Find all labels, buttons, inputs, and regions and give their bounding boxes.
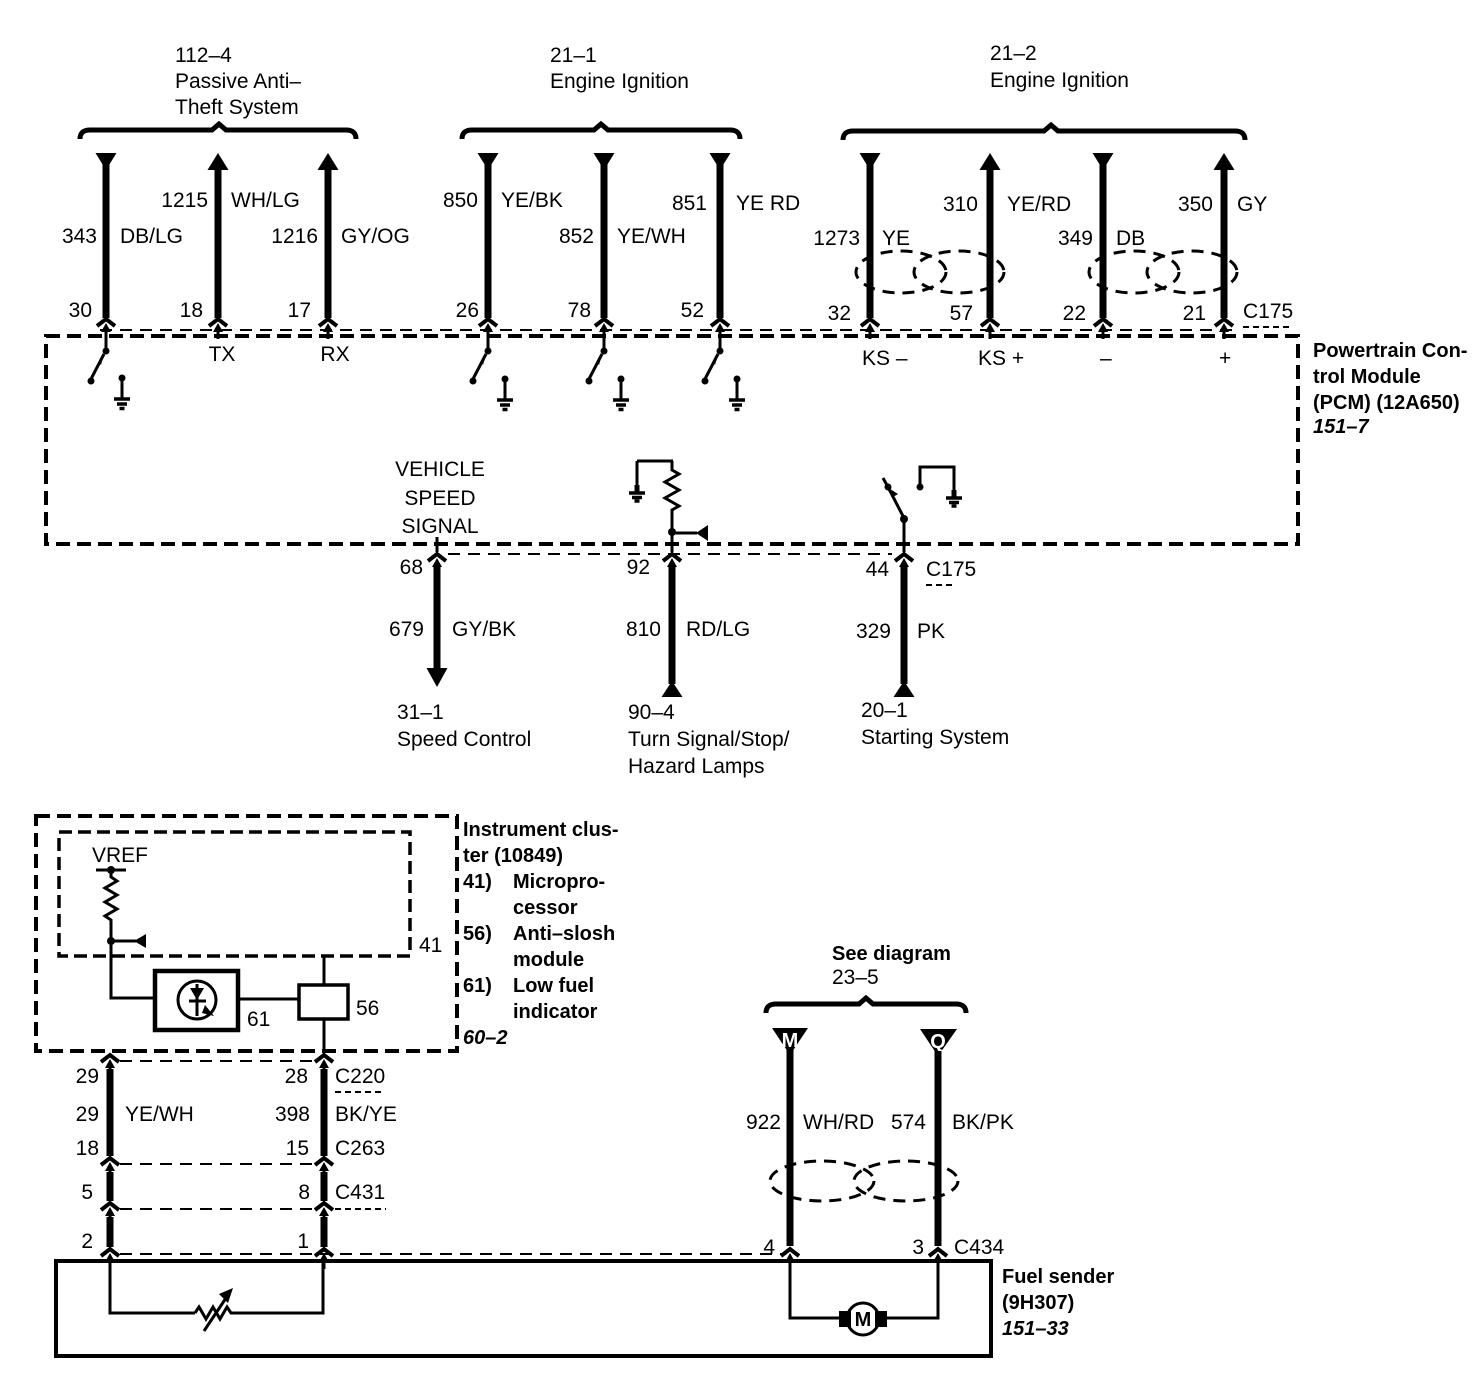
- svg-text:28: 28: [285, 1065, 308, 1088]
- wire 851 YE RD pin 52: [672, 153, 800, 322]
- wire 350 GY pin 21: [1178, 153, 1267, 325]
- connector pin 52: [711, 319, 729, 339]
- svg-text:M: M: [782, 1030, 799, 1052]
- svg-text:module: module: [513, 949, 584, 971]
- svg-text:1: 1: [297, 1230, 309, 1253]
- svg-text:trol Module: trol Module: [1313, 366, 1421, 388]
- svg-text:60–2: 60–2: [463, 1027, 508, 1049]
- wire 92 stub: [671, 532, 674, 552]
- wire 41 to 56: [323, 956, 326, 985]
- node 31-1 Speed Control label: [397, 701, 531, 751]
- ground under pin 78 switch: [613, 376, 629, 410]
- node 90-4 Turn Signal/Stop/Hazard Lamps label: [628, 701, 790, 778]
- svg-text:349: 349: [1058, 227, 1093, 250]
- svg-text:61): 61): [463, 975, 492, 997]
- svg-text:C434: C434: [954, 1236, 1005, 1259]
- svg-text:C175: C175: [926, 558, 976, 581]
- svg-text:30: 30: [69, 299, 92, 322]
- svg-text:Anti–slosh: Anti–slosh: [513, 923, 615, 945]
- wire fuel sender left loop: [110, 1261, 195, 1313]
- svg-text:M: M: [855, 1309, 872, 1331]
- switch under pin 30: [88, 338, 110, 385]
- node Powertrain Control Module label: [1313, 340, 1467, 438]
- wire 1215 WH/LG pin 18: [161, 153, 300, 322]
- switch under pin 52: [702, 338, 724, 385]
- wire connector line thin dashed below PCM: [448, 553, 892, 555]
- connector pin 68: [428, 554, 446, 574]
- node 20-1 Starting System label: [861, 699, 1009, 749]
- node indicator lamp circle: [178, 981, 216, 1019]
- svg-text:Micropro-: Micropro-: [513, 871, 605, 893]
- svg-text:TX: TX: [209, 343, 236, 366]
- svg-text:78: 78: [568, 299, 591, 322]
- connector pin 2 C434: [101, 1249, 119, 1269]
- svg-text:398: 398: [275, 1103, 310, 1126]
- connector pin 28 C220: [315, 1055, 333, 1075]
- motor M fuel pump: [839, 1303, 887, 1335]
- connector pin 8 C431: [315, 1203, 333, 1223]
- svg-text:21: 21: [1183, 302, 1206, 325]
- svg-text:Passive Anti–: Passive Anti–: [175, 70, 301, 93]
- node C263 label row: [76, 1137, 386, 1160]
- svg-text:(9H307): (9H307): [1002, 1292, 1074, 1314]
- svg-text:Instrument clus-: Instrument clus-: [463, 819, 619, 841]
- connector pin 15 C263: [315, 1158, 333, 1178]
- twisted pair 922/574: [770, 1161, 958, 1201]
- svg-text:indicator: indicator: [513, 1001, 598, 1023]
- ground under pin 30 switch: [114, 375, 130, 409]
- svg-text:C175: C175: [1243, 300, 1293, 323]
- wire segment pin 8: [321, 1172, 328, 1201]
- node 112-4 Passive Anti-Theft System title: [175, 44, 301, 119]
- node VEHICLE SPEED SIGNAL label: [395, 458, 485, 538]
- node See diagram 23-5 title: [832, 943, 951, 989]
- wire variable resistor arrow: [204, 1288, 233, 1331]
- svg-text:852: 852: [559, 225, 594, 248]
- svg-text:VREF: VREF: [92, 844, 148, 867]
- svg-text:C263: C263: [335, 1137, 385, 1160]
- svg-text:26: 26: [456, 299, 479, 322]
- wire segment pin 1: [321, 1217, 328, 1247]
- svg-text:112–4: 112–4: [175, 44, 232, 67]
- wire 56 to pin 28: [323, 1019, 326, 1053]
- wire 1216 GY/OG pin 17: [271, 153, 410, 322]
- svg-text:BK/YE: BK/YE: [335, 1103, 397, 1126]
- connector pin 18: [209, 319, 227, 339]
- wire fuel pump feed: [790, 1261, 839, 1318]
- svg-text:56): 56): [463, 923, 492, 945]
- node LED diode symbol: [189, 984, 214, 1016]
- node Fuel sender box: [56, 1261, 991, 1356]
- svg-text:57: 57: [950, 302, 973, 325]
- wire 398 BK/YE upper segment: [321, 1069, 328, 1156]
- svg-text:90–4: 90–4: [628, 701, 675, 724]
- connector pin 26: [479, 319, 497, 339]
- svg-text:1216: 1216: [271, 225, 318, 248]
- svg-text:GY/OG: GY/OG: [341, 225, 410, 248]
- svg-text:RX: RX: [320, 343, 349, 366]
- node pins 2 and 1 labels: [81, 1230, 309, 1253]
- switch at pin 44: [883, 478, 908, 552]
- node C175 label top: [1243, 300, 1293, 327]
- node VREF terminal: [96, 866, 126, 874]
- wire connector line C434 thin dashed: [120, 1253, 783, 1255]
- twisted pair 1273/310: [856, 251, 1004, 293]
- connector pin 29 C220: [101, 1055, 119, 1075]
- svg-text:8: 8: [298, 1181, 310, 1204]
- svg-text:23–5: 23–5: [832, 966, 879, 989]
- svg-text:574: 574: [891, 1111, 926, 1134]
- svg-text:Fuel sender: Fuel sender: [1002, 1266, 1114, 1288]
- node anti-slosh module 56 box: [299, 985, 348, 1019]
- svg-text:C431: C431: [335, 1181, 385, 1204]
- connector pin 5 C431: [101, 1203, 119, 1223]
- svg-text:PK: PK: [917, 620, 945, 643]
- svg-text:Engine Ignition: Engine Ignition: [550, 70, 689, 93]
- svg-text:41: 41: [419, 934, 442, 957]
- wire 329 PK pin 44: [856, 566, 945, 697]
- svg-text:3: 3: [912, 1236, 924, 1259]
- node 21-1 Engine Ignition title: [550, 44, 689, 93]
- svg-text:151–7: 151–7: [1313, 416, 1369, 438]
- wire 61 to 56: [238, 998, 299, 1001]
- bracket 21-2 group: [843, 125, 1245, 140]
- svg-text:Theft System: Theft System: [175, 96, 299, 119]
- connector pin 57: [981, 319, 999, 339]
- node junction dot VREF divider: [107, 937, 115, 945]
- svg-text:GY: GY: [1237, 193, 1267, 216]
- svg-text:VEHICLE: VEHICLE: [395, 458, 485, 481]
- ground under pin 26 switch: [497, 376, 513, 410]
- resistor R vss filter: [637, 461, 679, 532]
- connector pin 92: [663, 554, 681, 574]
- node microprocessor 41 inner box (dashed): [59, 832, 410, 956]
- svg-text:810: 810: [626, 618, 661, 641]
- node M terminal triangle: [772, 1028, 808, 1055]
- svg-text:DB/LG: DB/LG: [120, 225, 183, 248]
- svg-text:See diagram: See diagram: [832, 943, 951, 965]
- connector pin 78: [595, 319, 613, 339]
- wire bracket to ground near pin 44: [917, 467, 955, 492]
- op-amp PCM module box (dashed): [46, 336, 1298, 544]
- svg-text:329: 329: [856, 620, 891, 643]
- svg-text:+: +: [1219, 347, 1231, 370]
- resistor VREF pull-up: [105, 870, 117, 941]
- node C431 label row: [81, 1181, 386, 1209]
- wire 679 GY/BK pin 68: [389, 556, 516, 687]
- svg-text:21–2: 21–2: [990, 42, 1037, 65]
- bracket 112-4 group: [80, 124, 356, 139]
- svg-text:SIGNAL: SIGNAL: [401, 515, 478, 538]
- connector pin 32: [861, 319, 879, 339]
- wire 29 YE/WH upper segment: [107, 1069, 114, 1156]
- svg-text:KS +: KS +: [978, 347, 1024, 370]
- svg-text:–: –: [1100, 347, 1112, 370]
- svg-text:18: 18: [180, 299, 203, 322]
- bracket 21-1 group: [462, 124, 740, 139]
- switch under pin 78: [586, 338, 608, 385]
- svg-text:52: 52: [681, 299, 704, 322]
- svg-text:20–1: 20–1: [861, 699, 908, 722]
- svg-text:1273: 1273: [813, 227, 860, 250]
- svg-text:350: 350: [1178, 193, 1213, 216]
- horn (speed signal output) symbol: [674, 525, 708, 541]
- resistor fuel sender variable: [195, 1307, 234, 1319]
- svg-text:Speed Control: Speed Control: [397, 728, 531, 751]
- svg-text:68: 68: [400, 556, 423, 579]
- svg-text:61: 61: [247, 1008, 270, 1031]
- svg-text:18: 18: [76, 1137, 99, 1160]
- node junction dot 92: [668, 528, 676, 536]
- svg-text:44: 44: [866, 558, 890, 581]
- node Instrument cluster box (dashed): [36, 816, 457, 1051]
- node Instrument cluster legend: [463, 819, 619, 1049]
- wire connector line C431 thin dashed: [120, 1208, 314, 1210]
- svg-text:679: 679: [389, 618, 424, 641]
- node C175 label at pin 44: [866, 558, 977, 585]
- wire 574 BK/PK pin 3: [891, 1051, 1014, 1246]
- node pins 4 3 C434 labels: [763, 1236, 1004, 1259]
- node C220 label row: [76, 1065, 386, 1092]
- svg-text:310: 310: [943, 193, 978, 216]
- svg-text:22: 22: [1063, 302, 1086, 325]
- svg-text:ter (10849): ter (10849): [463, 845, 563, 867]
- svg-text:Powertrain Con-: Powertrain Con-: [1313, 340, 1467, 362]
- svg-text:KS –: KS –: [862, 347, 908, 370]
- svg-text:BK/PK: BK/PK: [952, 1111, 1014, 1134]
- svg-text:YE/RD: YE/RD: [1007, 193, 1071, 216]
- svg-text:4: 4: [763, 1236, 775, 1259]
- wire segment pin 5: [107, 1172, 114, 1201]
- svg-text:850: 850: [443, 189, 478, 212]
- wire 810 RD/LG pin 92: [626, 556, 750, 697]
- svg-text:Low fuel: Low fuel: [513, 975, 594, 997]
- svg-text:Engine Ignition: Engine Ignition: [990, 69, 1129, 92]
- svg-text:21–1: 21–1: [550, 44, 597, 67]
- svg-text:YE RD: YE RD: [736, 192, 800, 215]
- svg-text:2: 2: [81, 1230, 93, 1253]
- svg-text:15: 15: [286, 1137, 309, 1160]
- ground at vss filter: [629, 485, 645, 501]
- node Q terminal triangle: [920, 1029, 957, 1056]
- svg-text:922: 922: [746, 1111, 781, 1134]
- svg-text:WH/LG: WH/LG: [231, 189, 300, 212]
- svg-text:cessor: cessor: [513, 897, 578, 919]
- svg-text:Starting System: Starting System: [861, 726, 1009, 749]
- connector pin 44 C175: [895, 554, 913, 574]
- switch under pin 26: [470, 338, 492, 385]
- ground under pin 52 switch: [729, 376, 745, 410]
- svg-text:GY/BK: GY/BK: [452, 618, 516, 641]
- wire connector line C263 thin dashed: [120, 1163, 314, 1165]
- svg-text:29: 29: [76, 1065, 99, 1088]
- svg-text:Q: Q: [930, 1031, 946, 1053]
- svg-text:WH/RD: WH/RD: [803, 1111, 874, 1134]
- svg-text:851: 851: [672, 192, 707, 215]
- wire VREF to low fuel indicator: [111, 941, 155, 998]
- svg-text:SPEED: SPEED: [404, 487, 475, 510]
- svg-text:Turn Signal/Stop/: Turn Signal/Stop/: [628, 728, 790, 751]
- ground near pin 44: [946, 490, 962, 506]
- svg-text:Hazard Lamps: Hazard Lamps: [628, 755, 765, 778]
- connector pin 30 at C175: [97, 319, 115, 339]
- svg-text:31–1: 31–1: [397, 701, 444, 724]
- connector pin 17: [319, 319, 337, 339]
- svg-text:29: 29: [76, 1103, 99, 1126]
- connector pin 4 C434: [781, 1249, 799, 1269]
- svg-text:92: 92: [627, 556, 650, 579]
- connector pin 22: [1094, 319, 1112, 339]
- node 21-2 Engine Ignition title: [990, 42, 1129, 92]
- wire fuel pump return: [887, 1261, 938, 1318]
- wire 349 DB pin 22: [1058, 153, 1145, 325]
- wire 850 YE/BK pin 26: [443, 153, 563, 322]
- svg-text:5: 5: [81, 1181, 93, 1204]
- bracket see diagram group: [766, 998, 966, 1013]
- svg-text:YE/WH: YE/WH: [617, 225, 686, 248]
- svg-text:17: 17: [288, 299, 311, 322]
- svg-text:56: 56: [356, 997, 379, 1020]
- wire wiper arrow: [111, 934, 146, 948]
- svg-text:YE/WH: YE/WH: [125, 1103, 194, 1126]
- node wire labels YE/WH BK/YE: [76, 1103, 397, 1126]
- wire connector line C175 thin dashed: [100, 329, 1237, 331]
- svg-text:32: 32: [828, 302, 851, 325]
- svg-text:151–33: 151–33: [1002, 1318, 1069, 1340]
- node low fuel indicator 61 box: [155, 971, 238, 1030]
- wire vss stub inside PCM: [436, 537, 439, 552]
- svg-text:1215: 1215: [161, 189, 208, 212]
- wire 1273 YE pin 32 KS-: [813, 153, 910, 325]
- svg-text:C220: C220: [335, 1065, 385, 1088]
- svg-text:343: 343: [62, 225, 97, 248]
- wire 343 DB/LG pin 30: [62, 153, 183, 322]
- connector pin 18 C263: [101, 1158, 119, 1178]
- wire connector line C220 thin dashed: [120, 1060, 314, 1062]
- node Fuel sender label: [1002, 1266, 1114, 1340]
- wire fuel sender right of resistor: [234, 1261, 323, 1313]
- wire 852 YE/WH pin 78: [559, 153, 686, 322]
- wire 310 YE/RD pin 57 KS+: [943, 153, 1071, 325]
- svg-text:YE: YE: [882, 227, 910, 250]
- connector pin 21: [1215, 319, 1233, 339]
- svg-text:YE/BK: YE/BK: [501, 189, 563, 212]
- svg-text:RD/LG: RD/LG: [686, 618, 750, 641]
- wire segment pin 2: [107, 1217, 114, 1247]
- svg-text:(PCM) (12A650): (PCM) (12A650): [1313, 392, 1460, 414]
- wire 922 WH/RD pin 4: [746, 1050, 874, 1246]
- svg-text:41): 41): [463, 871, 492, 893]
- twisted pair 349/350: [1089, 251, 1237, 293]
- svg-text:DB: DB: [1116, 227, 1145, 250]
- connector pin 1 C434: [315, 1249, 333, 1269]
- connector pin 3 C434: [929, 1249, 947, 1269]
